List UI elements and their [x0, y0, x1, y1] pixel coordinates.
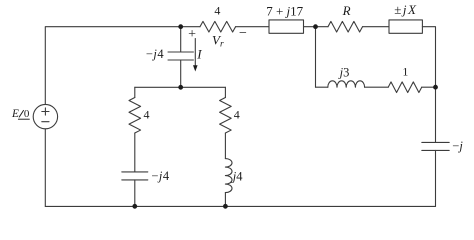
wire to inductor	[224, 133, 226, 159]
node D dot	[433, 85, 438, 90]
resistor 4 right vertical	[220, 98, 232, 134]
svg-text:I: I	[196, 46, 202, 61]
svg-text:4: 4	[214, 4, 220, 18]
resistor 1	[388, 82, 422, 93]
plus in source	[42, 108, 49, 115]
svg-text:Vr: Vr	[212, 32, 224, 49]
wire to capacitor	[134, 133, 136, 172]
right middle branch wire	[224, 87, 226, 97]
node F dot	[223, 204, 228, 209]
svg-text:1: 1	[402, 65, 408, 79]
inductor j4	[225, 159, 232, 193]
wire resistor to box	[236, 26, 269, 28]
resistor 4 left vertical	[129, 98, 141, 134]
svg-text:R: R	[342, 3, 351, 18]
node A dot	[178, 24, 183, 29]
resistor R	[328, 21, 363, 32]
wire box to R	[304, 26, 329, 28]
capacitor -j4 left	[122, 171, 148, 173]
svg-text:±jX: ±jX	[394, 2, 417, 17]
svg-text:+: +	[188, 27, 196, 42]
wire node down	[315, 27, 317, 87]
angle slash of phasor notation	[19, 110, 24, 117]
node B dot	[313, 24, 318, 29]
node E dot	[132, 204, 137, 209]
svg-text:E: E	[11, 108, 19, 120]
impedance box ±jX	[389, 20, 422, 33]
wire top node branch	[180, 27, 182, 52]
wire capacitor to mid node	[180, 60, 182, 87]
resistor 4 top	[200, 21, 236, 32]
current arrow I	[194, 39, 196, 66]
svg-text:−: −	[239, 26, 247, 41]
wire box X to right corner	[422, 27, 435, 143]
svg-text:7 + j17: 7 + j17	[266, 4, 303, 19]
underline of angle notation	[18, 118, 30, 120]
source E circle	[33, 104, 57, 128]
svg-text:j3: j3	[338, 65, 350, 79]
svg-text:0: 0	[24, 108, 30, 120]
wire resistor 1 to right	[422, 86, 436, 88]
impedance box 7+j17	[269, 20, 304, 33]
wire bottom	[45, 205, 435, 207]
svg-text:4: 4	[144, 108, 150, 122]
wire right lower	[435, 150, 437, 206]
left middle branch wire	[134, 87, 136, 97]
capacitor -j4 top	[168, 51, 193, 53]
minus in source	[42, 121, 49, 123]
svg-text:−j4: −j4	[146, 47, 165, 61]
svg-text:j4: j4	[231, 169, 243, 183]
wire to j3	[316, 86, 328, 88]
wire left lower	[44, 129, 46, 207]
inductor j3	[328, 81, 365, 87]
wire top left	[45, 27, 200, 105]
wire j3 to resistor 1	[365, 86, 389, 88]
svg-text:4: 4	[234, 107, 240, 121]
svg-text:−j: −j	[452, 139, 463, 153]
middle horizontal wire	[135, 86, 226, 88]
wire R to box X	[363, 26, 390, 28]
node C dot	[178, 85, 183, 90]
arrowhead I	[193, 65, 198, 71]
capacitor -j right	[422, 141, 449, 143]
wire capacitor to bottom	[134, 180, 136, 207]
svg-text:−j4: −j4	[151, 169, 170, 183]
wire inductor to bottom	[224, 193, 226, 207]
